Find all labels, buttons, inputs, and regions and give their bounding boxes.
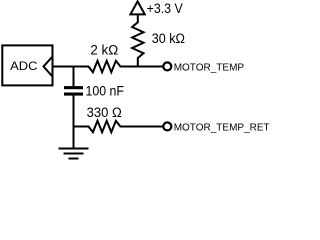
svg-text:ADC: ADC: [10, 59, 37, 73]
svg-text:2 kΩ: 2 kΩ: [90, 42, 118, 57]
svg-text:30 kΩ: 30 kΩ: [152, 31, 185, 46]
svg-text:MOTOR_TEMP_RET: MOTOR_TEMP_RET: [174, 122, 270, 133]
svg-text:100 nF: 100 nF: [86, 84, 124, 99]
svg-text:+3.3 V: +3.3 V: [147, 1, 183, 16]
svg-text:330 Ω: 330 Ω: [87, 105, 122, 120]
svg-text:MOTOR_TEMP: MOTOR_TEMP: [174, 62, 245, 73]
